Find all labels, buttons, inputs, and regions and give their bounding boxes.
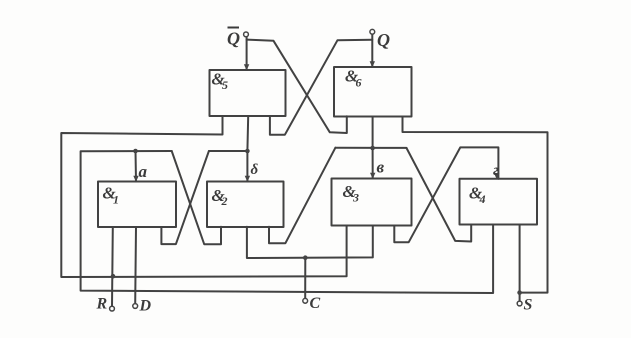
svg-text:6: 6 xyxy=(356,76,362,90)
svg-text:5: 5 xyxy=(222,78,228,92)
svg-text:Q: Q xyxy=(377,30,390,50)
svg-text:4: 4 xyxy=(479,192,486,206)
svg-text:a: a xyxy=(139,162,148,181)
svg-text:2: 2 xyxy=(221,194,228,208)
svg-text:г: г xyxy=(493,162,499,179)
svg-text:Q: Q xyxy=(227,29,240,49)
svg-text:R: R xyxy=(96,296,108,313)
svg-text:δ: δ xyxy=(251,162,259,178)
svg-text:D: D xyxy=(139,298,152,315)
svg-text:C: C xyxy=(310,295,321,312)
svg-text:3: 3 xyxy=(352,191,359,205)
svg-text:1: 1 xyxy=(113,193,119,207)
svg-text:S: S xyxy=(524,297,533,314)
svg-text:в: в xyxy=(377,158,385,177)
